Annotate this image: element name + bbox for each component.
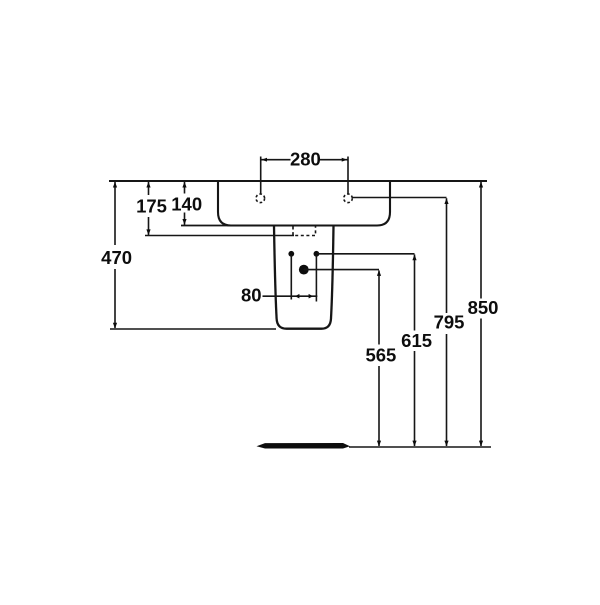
basin outline — [218, 181, 390, 226]
drain outlet dot — [299, 265, 309, 275]
label 565 — [365, 344, 396, 365]
svg-text:615: 615 — [401, 330, 432, 351]
dimension 175 — [146, 182, 150, 236]
dimension 850 — [479, 182, 483, 447]
svg-text:470: 470 — [101, 247, 132, 268]
dimension 615 — [412, 254, 416, 446]
label 470 — [101, 247, 132, 268]
label 175 — [136, 195, 167, 216]
dimension 280 — [261, 157, 348, 195]
label 850 — [468, 297, 499, 318]
svg-text:565: 565 — [365, 344, 396, 365]
right faucet hole (dashed) — [344, 194, 353, 203]
basin top edge / datum line — [109, 180, 487, 182]
label 140 — [171, 194, 202, 215]
extension line from bolt dots to 615 — [316, 253, 414, 255]
svg-text:280: 280 — [290, 148, 321, 169]
svg-text:850: 850 — [468, 297, 499, 318]
dashed fixing slot under basin — [293, 227, 316, 236]
stem from right bolt dot — [315, 255, 317, 302]
dimension 140 — [182, 182, 186, 225]
extension line from drain dot to 565 — [304, 269, 379, 271]
label 280 — [290, 148, 321, 169]
stem from left bolt dot — [290, 255, 292, 300]
svg-text:175: 175 — [136, 195, 167, 216]
pedestal bottom extension line (470 datum) — [110, 328, 276, 330]
svg-text:80: 80 — [241, 284, 262, 305]
svg-text:795: 795 — [434, 312, 465, 333]
right fixing bolt dot — [314, 251, 320, 257]
dimension 470 — [113, 182, 117, 329]
left fixing bolt dot — [288, 251, 294, 257]
dimension 565 — [377, 270, 381, 446]
basin bottom extension line (140 datum) — [181, 225, 233, 227]
label 615 — [401, 330, 432, 351]
fixing slot extension line (175 datum) — [145, 235, 294, 237]
svg-text:140: 140 — [171, 194, 202, 215]
pedestal outline — [274, 226, 334, 329]
extension line from faucet hole to 795 — [353, 197, 447, 199]
label 80 — [241, 284, 262, 305]
left faucet hole (dashed) — [256, 194, 265, 203]
floor line (thin) — [349, 446, 491, 448]
dimension 795 — [444, 198, 448, 446]
floor line (thick bar) — [257, 443, 351, 449]
dimension 80 — [263, 294, 318, 299]
label 795 — [434, 312, 465, 333]
